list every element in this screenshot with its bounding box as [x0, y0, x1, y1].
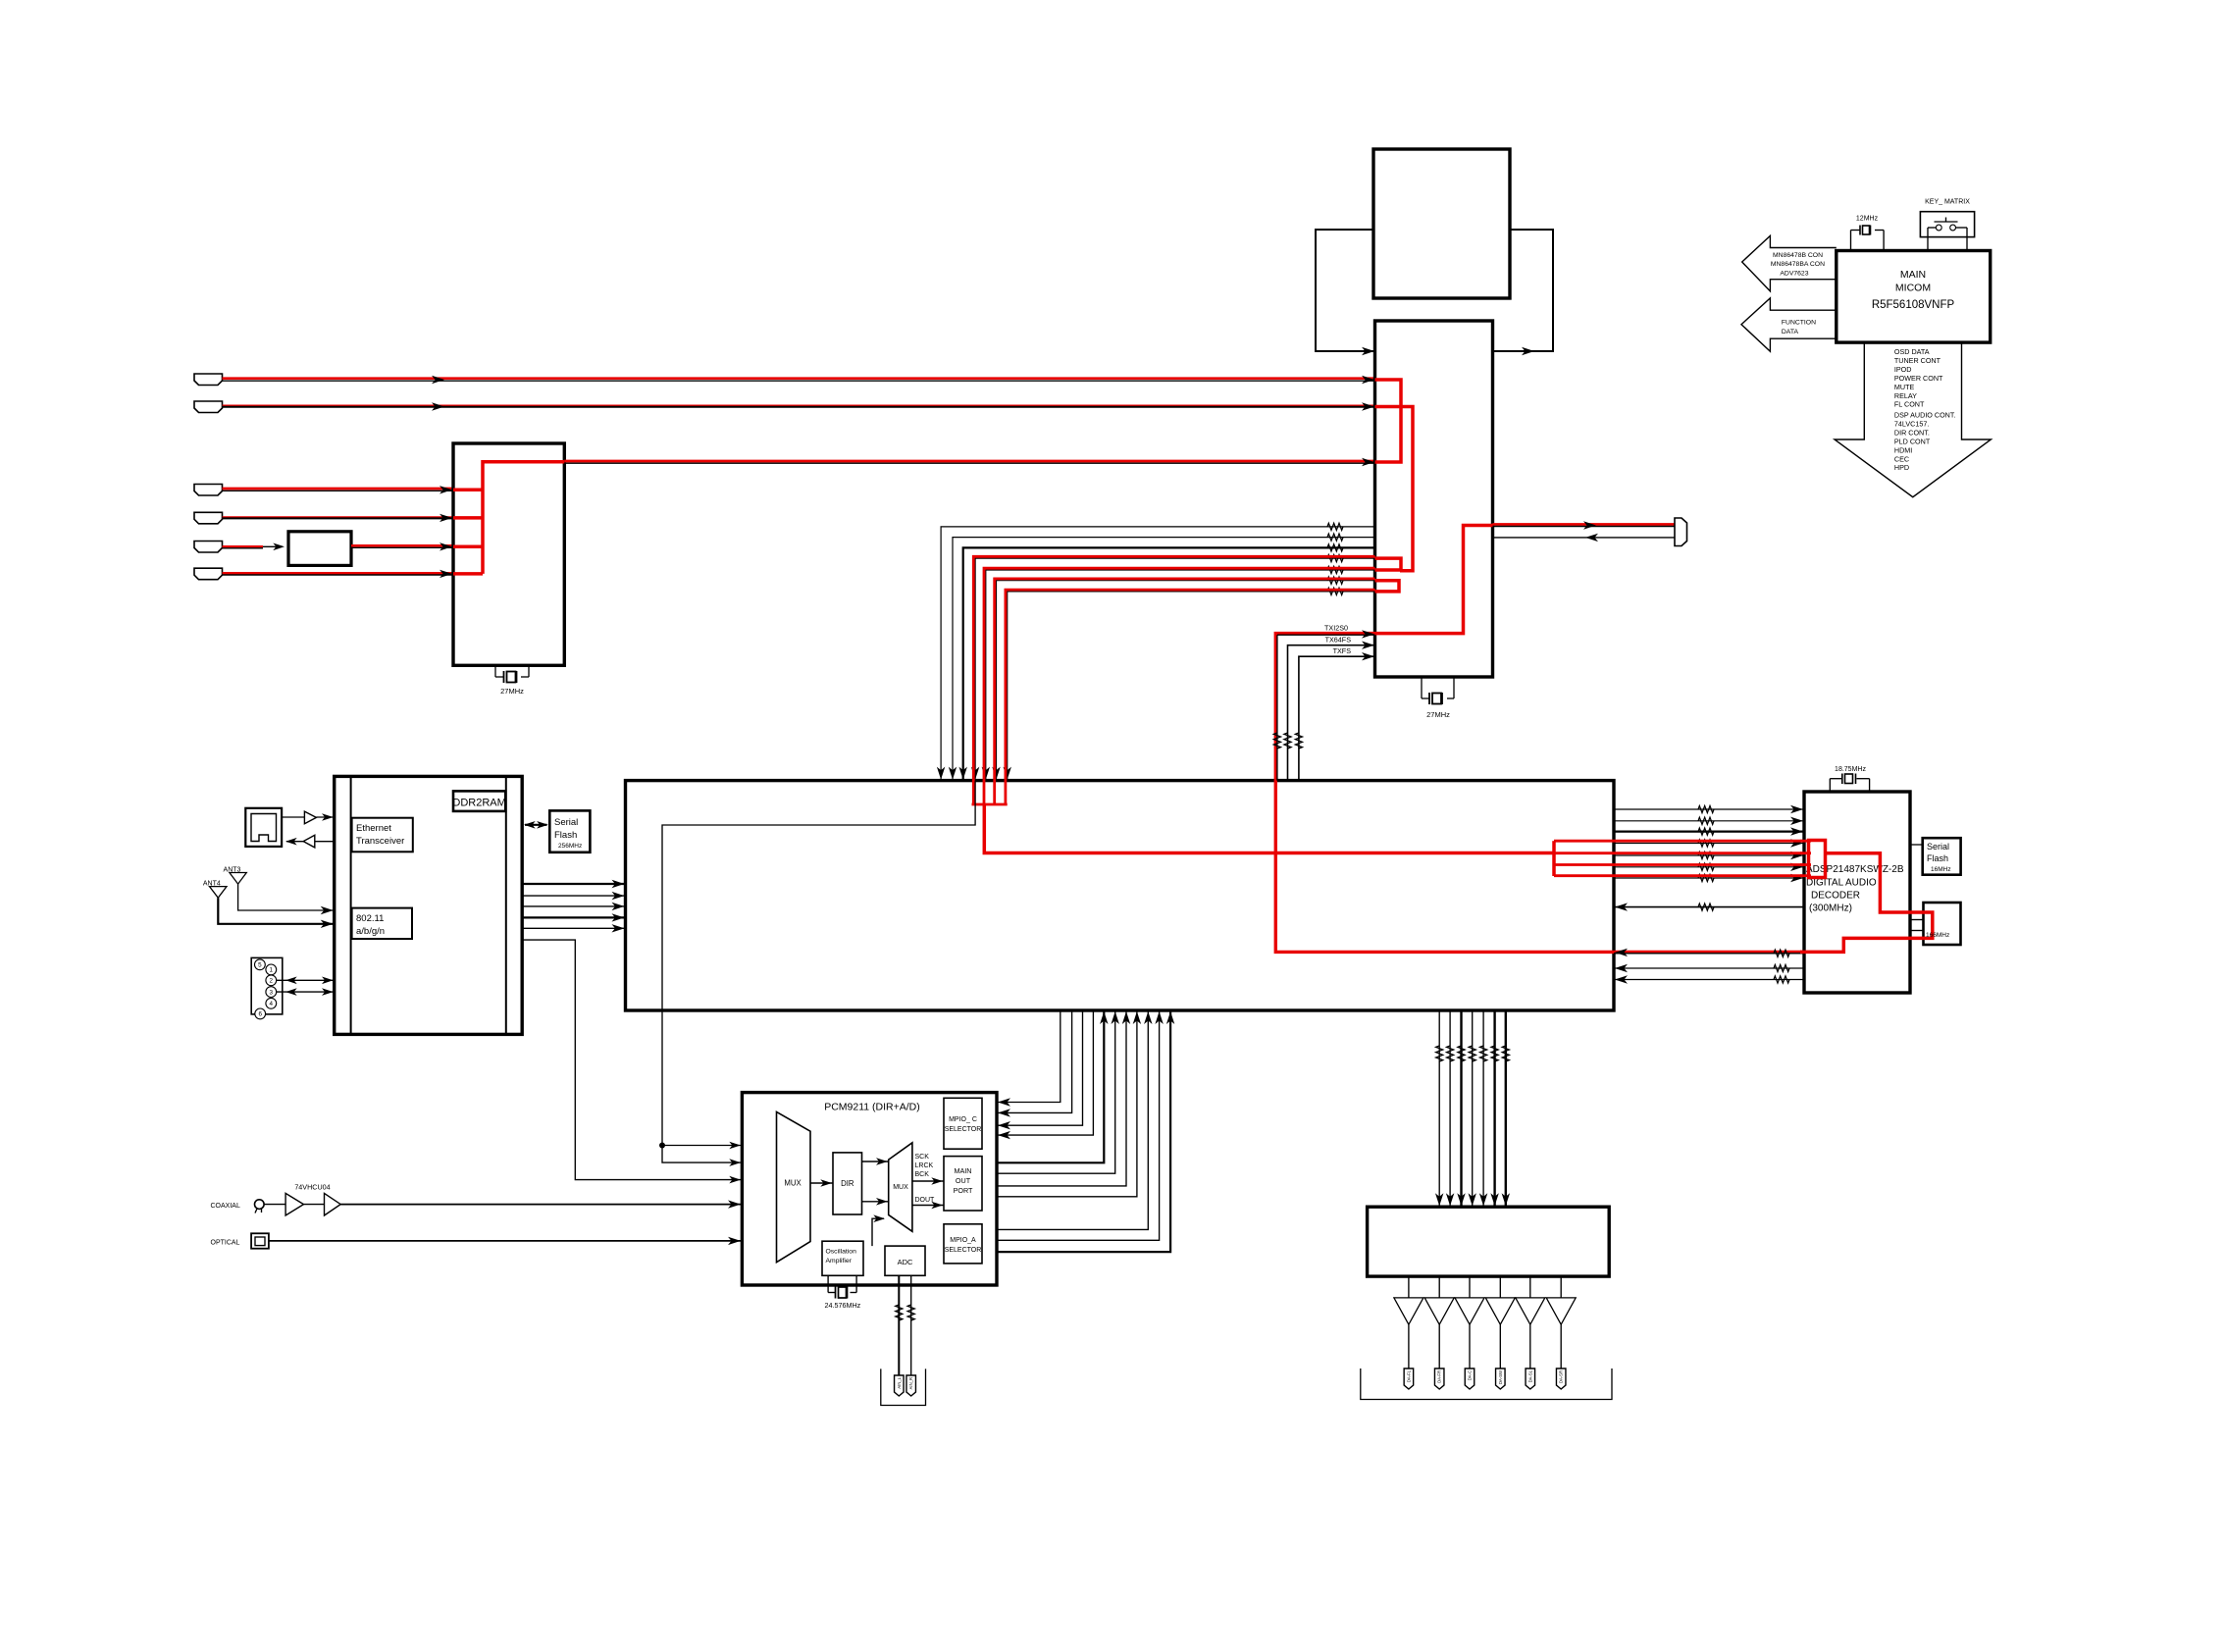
svg-text:ADC: ADC: [898, 1258, 913, 1266]
wire MUX1 to DIR: [810, 1179, 833, 1187]
label DOUT: [915, 1197, 936, 1204]
svg-text:AIN_L: AIN_L: [897, 1376, 902, 1388]
svg-text:POWER CONT: POWER CONT: [1894, 374, 1943, 383]
wire ADSP to DSP rowB: [1614, 964, 1804, 972]
svg-text:LRCK: LRCK: [915, 1162, 934, 1169]
svg-text:MPIO_ C: MPIO_ C: [949, 1116, 977, 1123]
network module inner lines: [351, 776, 506, 1034]
label TXFS: [1333, 646, 1352, 655]
connector HDMI-IN5 lug: [194, 542, 223, 553]
block arrow down: [1835, 342, 1991, 497]
svg-text:a/b/g/n: a/b/g/n: [356, 926, 385, 937]
svg-text:MN86478B CON: MN86478B CON: [1773, 252, 1823, 259]
connector HDMI-IN3 lug: [194, 485, 223, 496]
red overlay rows to ADSP: [1554, 841, 1810, 876]
serial flash 16MHz box: [1923, 838, 1961, 875]
wire U3 to HDMI-OUT (red/black): [1493, 521, 1676, 529]
labels MN86478 CON: [1771, 252, 1825, 278]
wire ADSP to serial flash: [1910, 844, 1923, 846]
crystal X1 12MHz: [1851, 216, 1885, 251]
label box Ethernet Transceiver: [352, 818, 413, 852]
block 166MHz: [1924, 903, 1961, 945]
svg-text:CEC: CEC: [1894, 454, 1909, 463]
svg-text:COAXIAL: COAXIAL: [211, 1203, 240, 1210]
ADV7623 HDMI processor U3: [1375, 321, 1493, 677]
label box DDR2RAM: [452, 791, 505, 811]
wire TXI2S0 black: [1273, 630, 1374, 780]
wire optical to PCM9211: [269, 1237, 743, 1245]
wire ADSP to DSP rowA black: [1614, 949, 1804, 957]
connector DA-SW: [1496, 1368, 1506, 1389]
connector coax jack: [255, 1200, 265, 1213]
connector DA-FL: [1404, 1368, 1414, 1389]
svg-text:1: 1: [270, 967, 274, 974]
label box 802.11 a/b/g/n: [352, 908, 412, 939]
svg-text:27MHz: 27MHz: [500, 687, 524, 696]
wires key matrix to MICOM: [1928, 228, 1967, 251]
label PCM9211 title: [824, 1102, 920, 1113]
svg-text:MUX: MUX: [784, 1179, 802, 1188]
svg-text:R5F56108VNFP: R5F56108VNFP: [1872, 299, 1955, 311]
svg-text:MAIN: MAIN: [1900, 269, 1926, 281]
svg-text:MAIN: MAIN: [955, 1166, 972, 1175]
label COAXIAL: [211, 1203, 240, 1210]
svg-text:RELAY: RELAY: [1894, 391, 1917, 400]
red net HDMI2 vertical: [1375, 407, 1414, 571]
svg-text:12MHz: 12MHz: [1856, 216, 1879, 223]
red net TXI2S0 to HDMI-out: [1375, 526, 1493, 634]
svg-text:DA-FL: DA-FL: [1406, 1369, 1411, 1382]
wire TX64FS: [1284, 642, 1375, 781]
svg-text:IPOD: IPOD: [1894, 365, 1912, 374]
labels MICOM signal list: [1894, 347, 1956, 472]
block MN86478 wide: [1316, 230, 1553, 351]
svg-text:DSP AUDIO CONT.: DSP AUDIO CONT.: [1894, 411, 1956, 420]
repeater U10: [288, 532, 351, 566]
wire switch out to ADV7623: [564, 458, 1374, 466]
connector DA-C: [1465, 1368, 1475, 1389]
svg-text:5: 5: [258, 962, 262, 969]
svg-text:Serial: Serial: [1927, 842, 1949, 852]
crystal X4 24.576MHz: [825, 1275, 861, 1310]
connector DA-SL: [1526, 1368, 1535, 1389]
svg-text:MN86478BA CON: MN86478BA CON: [1771, 261, 1825, 268]
connector DA-FR: [1434, 1368, 1444, 1389]
svg-text:Amplifier: Amplifier: [826, 1258, 853, 1265]
bus network to DSP (5 wires): [522, 880, 625, 933]
svg-text:802.11: 802.11: [356, 913, 384, 924]
svg-text:PCM9211 (DIR+A/D): PCM9211 (DIR+A/D): [824, 1102, 920, 1113]
DSP main block U4: [626, 781, 1615, 1010]
ADSP21487 block U7: [1804, 792, 1910, 993]
svg-text:PLD CONT: PLD CONT: [1894, 437, 1931, 445]
red ring inside ADSP: [1809, 841, 1826, 878]
MAIN MICOM U9: [1837, 251, 1991, 343]
svg-text:DIR CONT.: DIR CONT.: [1894, 428, 1930, 437]
svg-text:OSD DATA: OSD DATA: [1894, 347, 1930, 356]
DAC block U8: [1368, 1207, 1610, 1276]
bracket AIN group: [881, 1368, 926, 1405]
svg-text:OPTICAL: OPTICAL: [211, 1239, 240, 1246]
label ADSP21487: [1806, 864, 1904, 914]
svg-text:SELECTOR: SELECTOR: [945, 1247, 982, 1254]
svg-text:6: 6: [258, 1011, 262, 1018]
wire U3 to wide-rect: [1522, 347, 1534, 355]
connector HDMI-IN1 lug: [194, 374, 223, 386]
wire ADSP to DSP rowC: [1614, 975, 1804, 983]
wire pin3 to network: [277, 988, 335, 996]
wire DIR to MUX2 b: [862, 1198, 889, 1206]
wire HDMI4 to switch: [223, 514, 454, 522]
bus PCM9211 to DSP (7 wires): [997, 1010, 1174, 1252]
label 74VHCU04: [294, 1183, 330, 1192]
label TXI2S0: [1324, 624, 1348, 633]
DIR block: [833, 1153, 862, 1214]
red path ADSP to 166MHz box: [1800, 853, 1933, 953]
svg-text:TXFS: TXFS: [1333, 646, 1352, 655]
svg-text:DATA: DATA: [1782, 329, 1799, 336]
svg-text:DA-FR: DA-FR: [1437, 1370, 1442, 1383]
svg-text:DA-SW: DA-SW: [1498, 1370, 1503, 1384]
svg-text:74VHCU04: 74VHCU04: [294, 1183, 330, 1192]
MAIN OUT PORT block: [944, 1157, 982, 1211]
wire MUX2 to MAIN OUT: [912, 1177, 944, 1185]
wire ADSP to DSP row8: [1614, 903, 1804, 910]
wire pin2 to network: [277, 977, 335, 985]
Oscillation Amplifier block: [822, 1241, 863, 1275]
svg-text:TUNER CONT: TUNER CONT: [1894, 356, 1941, 365]
red net HDMI1-switch loop: [1375, 380, 1402, 462]
wire network to PCM9211 MPIO: [522, 940, 742, 1183]
wire coaxial to PCM9211: [340, 1200, 742, 1208]
svg-text:HPD: HPD: [1894, 463, 1909, 472]
connector HDMI-OUT lug: [1675, 518, 1687, 546]
connector AIN_L: [895, 1375, 905, 1396]
connector HDMI-IN2 lug: [194, 401, 223, 413]
wire HDMI3 to switch: [223, 486, 454, 493]
bidir arrow network-serial flash: [524, 821, 548, 829]
block arrow left 1: [1742, 235, 1837, 291]
svg-text:DDR2RAM: DDR2RAM: [452, 798, 505, 809]
antenna ANT3: [224, 867, 335, 915]
red net rows6-7 bracket: [1375, 581, 1400, 592]
red net rows4-5 bracket: [1375, 558, 1402, 570]
connector AIN_R: [906, 1375, 916, 1396]
block arrow left 2: [1741, 298, 1837, 352]
svg-text:OUT: OUT: [956, 1176, 971, 1185]
wires ADC to AIN connectors: [896, 1275, 915, 1375]
svg-text:ADSP21487KSWZ-2B: ADSP21487KSWZ-2B: [1806, 864, 1904, 875]
connector DA-SR: [1556, 1368, 1566, 1389]
mux trapezoid MUX2: [889, 1143, 912, 1232]
wire repeater to switch: [351, 542, 453, 550]
label 166MHz: [1926, 932, 1949, 939]
bus DSP to DAC (7 wires w/ resistors): [1435, 1010, 1510, 1207]
connector HDMI-IN6 lug: [194, 568, 223, 580]
svg-text:Oscillation: Oscillation: [826, 1249, 857, 1256]
svg-text:74LVC157.: 74LVC157.: [1894, 419, 1929, 428]
svg-text:ADV7623: ADV7623: [1780, 271, 1808, 278]
wire TXI2S0 (red): [1275, 634, 1843, 953]
svg-text:HDMI: HDMI: [1894, 445, 1912, 454]
svg-text:SCK: SCK: [915, 1154, 930, 1161]
bus DSP to ADSP (7 wires w/ resistors): [1614, 805, 1804, 882]
svg-text:MICOM: MICOM: [1895, 283, 1931, 294]
svg-text:BCK: BCK: [915, 1171, 930, 1178]
svg-text:DA-C: DA-C: [1468, 1370, 1473, 1380]
svg-text:DOUT: DOUT: [915, 1197, 936, 1204]
wire HDMI-OUT return: [1493, 534, 1676, 542]
crystal X3 27MHz: [1422, 677, 1454, 719]
buffer gate TX: [282, 811, 335, 824]
svg-text:SELECTOR: SELECTOR: [945, 1126, 982, 1133]
output amplifiers (6 triangles): [1394, 1276, 1576, 1368]
svg-text:27MHz: 27MHz: [1426, 710, 1450, 719]
crystal X2 27MHz: [495, 665, 529, 696]
svg-text:Transceiver: Transceiver: [356, 836, 404, 847]
svg-text:DECODER: DECODER: [1811, 891, 1860, 902]
PCM9211 block U6: [742, 1093, 997, 1285]
wire TXFS: [1295, 652, 1374, 781]
svg-text:TX64FS: TX64FS: [1325, 636, 1352, 645]
svg-text:4: 4: [270, 1001, 274, 1007]
svg-text:MPIO_A: MPIO_A: [950, 1237, 976, 1244]
red stubs across ADSP edge: [1800, 841, 1811, 876]
svg-text:KEY_ MATRIX: KEY_ MATRIX: [1925, 199, 1970, 206]
svg-text:166MHz: 166MHz: [1926, 932, 1949, 939]
labels SCK LRCK BCK: [915, 1154, 934, 1178]
svg-text:Serial: Serial: [554, 817, 578, 828]
connector HDMI-IN4 lug: [194, 512, 223, 524]
svg-text:DA-SR: DA-SR: [1559, 1370, 1564, 1383]
connector optical jack: [251, 1233, 269, 1248]
wires ADSP to 166MHz box: [1910, 920, 1924, 931]
bus DSP to MPIO_C (4 wires): [997, 1010, 1093, 1139]
svg-text:24.576MHz: 24.576MHz: [825, 1301, 861, 1310]
wire ADC to MUX2: [872, 1214, 885, 1246]
wire DIR to MUX2 a: [862, 1158, 889, 1165]
svg-text:MUTE: MUTE: [1894, 383, 1915, 391]
wire HDMI5 to repeater: [223, 543, 285, 551]
connector 6-pin header: [251, 957, 283, 1018]
svg-text:MUX: MUX: [893, 1184, 908, 1191]
wire HDMI1 to ADV7623 (red/black pair): [223, 376, 1375, 384]
red path inside switch: [453, 462, 564, 574]
label TX64FS: [1325, 636, 1352, 645]
crystal X5 18.75MHz: [1830, 766, 1869, 792]
wire wide-rect to U3: [1362, 347, 1374, 355]
svg-text:2: 2: [270, 978, 274, 985]
red overlay lines rows4-7: [973, 556, 1374, 804]
wire HDMI2 to ADV7623 (black/red pair): [223, 402, 1375, 410]
serial flash 256MHz box: [549, 810, 590, 852]
key matrix box: [1920, 212, 1974, 237]
svg-text:(300MHz): (300MHz): [1809, 903, 1852, 914]
push switch symbol: [1928, 218, 1967, 231]
label KEY_MATRIX: [1925, 199, 1970, 206]
svg-text:DA-SL: DA-SL: [1527, 1369, 1532, 1382]
svg-text:FL CONT: FL CONT: [1894, 400, 1925, 409]
svg-text:Ethernet: Ethernet: [356, 823, 391, 834]
wire DOUT to MAIN OUT: [912, 1202, 944, 1210]
mux trapezoid MUX1: [777, 1111, 811, 1262]
svg-text:AIN_R: AIN_R: [908, 1377, 913, 1389]
label MAIN MICOM: [1872, 269, 1955, 311]
buffer gate RX: [285, 835, 335, 848]
svg-text:256MHz: 256MHz: [558, 843, 582, 850]
bracket DAC outputs: [1361, 1368, 1612, 1400]
MPIO_C SELECTOR block: [944, 1098, 982, 1149]
wire through DSP to PCM9211 inputs: [659, 781, 975, 1166]
buffer 74VHCU04 stage1: [264, 1193, 303, 1215]
svg-text:3: 3: [270, 989, 274, 996]
network module block U5: [335, 776, 523, 1034]
svg-text:TXI2S0: TXI2S0: [1324, 624, 1348, 633]
label FUNCTION DATA: [1782, 320, 1816, 336]
red bus join inside DSP: [972, 804, 1555, 853]
antenna ANT4: [203, 881, 335, 929]
svg-text:FUNCTION: FUNCTION: [1782, 320, 1816, 327]
svg-text:DIR: DIR: [841, 1179, 854, 1188]
svg-text:Flash: Flash: [554, 830, 577, 841]
svg-text:PORT: PORT: [954, 1186, 973, 1195]
buffer 74VHCU04 stage2: [304, 1193, 341, 1215]
block MN86478B square: [1373, 149, 1510, 298]
label OPTICAL: [211, 1239, 240, 1246]
HDMI switch U2: [453, 443, 564, 665]
wire HDMI6 to switch: [223, 570, 454, 578]
MPIO_A SELECTOR block: [944, 1224, 982, 1264]
svg-text:18.75MHz: 18.75MHz: [1835, 766, 1866, 773]
svg-text:16MHz: 16MHz: [1931, 866, 1951, 873]
connector RJ45 jack: [245, 808, 282, 847]
svg-text:Flash: Flash: [1927, 853, 1948, 863]
bus lines U3 to DSP (7 wires w/ resistors): [937, 523, 1375, 780]
ADC block: [885, 1246, 925, 1275]
